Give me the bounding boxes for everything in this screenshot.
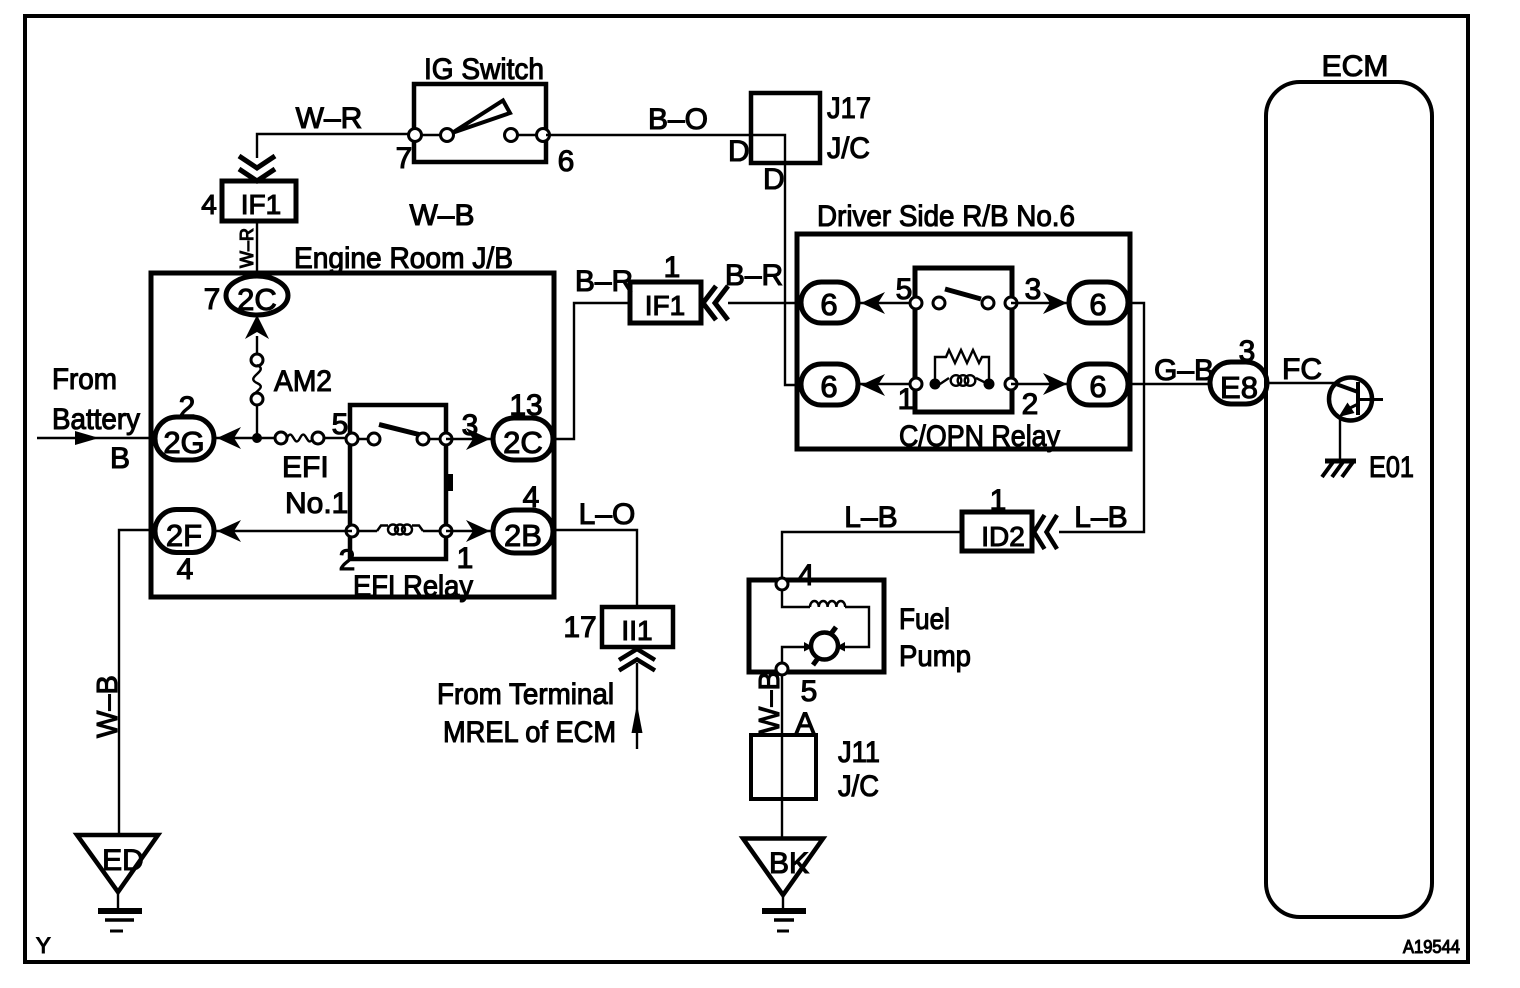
svg-text:From Terminal: From Terminal [437, 678, 614, 711]
wire chevron to R/B box [728, 302, 801, 304]
svg-text:2F: 2F [166, 518, 202, 553]
wire 2B to II1 (L-O) [553, 530, 637, 607]
connector IF1 box (pin 4) [222, 181, 296, 221]
svg-text:ED: ED [102, 844, 144, 877]
svg-text:EFI: EFI [282, 451, 329, 484]
svg-text:2C: 2C [503, 425, 543, 460]
svg-text:4: 4 [177, 553, 194, 586]
Driver Side R/B No.6 box [797, 234, 1130, 449]
svg-text:Y: Y [36, 933, 51, 958]
arrow into 2C (up) [245, 315, 269, 339]
ground BK triangle [743, 839, 823, 896]
svg-text:6: 6 [820, 287, 837, 322]
svg-text:Engine Room J/B: Engine Room J/B [294, 242, 513, 275]
svg-text:7: 7 [396, 142, 413, 175]
C/OPN Relay box [915, 268, 1012, 412]
svg-text:4: 4 [798, 559, 815, 592]
wire from arrow to fusible link AM2 [256, 336, 258, 355]
svg-text:5: 5 [801, 675, 818, 708]
svg-text:E8: E8 [1220, 370, 1258, 405]
ground ED triangle [77, 835, 158, 892]
EFI Relay top row links [352, 438, 374, 440]
fusible link AM2 [251, 354, 263, 366]
connector 2C (pin 7, top) [226, 276, 288, 315]
svg-text:J11: J11 [838, 736, 880, 769]
svg-text:G–B: G–B [1154, 354, 1214, 387]
svg-text:3: 3 [1025, 273, 1042, 306]
wire fuse to EFI relay pin 5 [324, 437, 352, 439]
svg-text:A19544: A19544 [1403, 937, 1460, 957]
svg-text:J/C: J/C [827, 132, 870, 165]
IG Switch lever [452, 101, 510, 134]
svg-text:BK: BK [769, 847, 809, 880]
wire B-O from IG Switch pin 6 to J17 [546, 134, 751, 136]
svg-text:E01: E01 [1369, 451, 1414, 484]
wire EFI relay pin 3 to 2C [446, 438, 493, 440]
wire to C/OPN pin 5 [858, 302, 916, 304]
svg-text:6: 6 [820, 369, 837, 404]
svg-text:4: 4 [201, 189, 217, 220]
arrow into 2B (right) [466, 520, 490, 542]
wire ID2 to fuel pump (L-B) [782, 532, 962, 584]
wire W-R from IF1 down to 2C [256, 221, 258, 276]
svg-text:IF1: IF1 [241, 189, 281, 220]
connector ID2 chevrons (pointing left) [1034, 515, 1045, 549]
junction block J11 J/C [751, 735, 816, 799]
svg-text:6: 6 [558, 145, 575, 178]
ground E01 [1325, 459, 1356, 464]
Fuel Pump box [749, 580, 884, 672]
connector 6 (top right) [1069, 282, 1128, 323]
svg-text:W–B: W–B [409, 199, 474, 232]
wire 6 top-right down to ID2 (L-B) [1059, 303, 1144, 532]
svg-text:MREL of ECM: MREL of ECM [443, 716, 616, 749]
C/OPN Relay coil [940, 378, 949, 384]
transistor inside ECM [1329, 378, 1372, 421]
arrow into 6 top-right [1043, 292, 1067, 314]
junction block J17 J/C [751, 93, 820, 163]
IG Switch terminal pin 7 [409, 129, 422, 142]
wire 2F to EFI relay pin 2 [214, 530, 352, 532]
svg-text:5: 5 [896, 273, 913, 306]
connector IF1 box (pin 1) [630, 282, 701, 323]
wire to C/OPN pin 1 [858, 383, 916, 385]
arrow into 6 top-left [861, 292, 885, 314]
connector IF1 chevrons (pointing left) [703, 286, 716, 320]
svg-text:1: 1 [990, 484, 1007, 517]
EFI Relay switch lever [379, 425, 419, 435]
svg-text:3: 3 [1239, 335, 1256, 368]
connector 2G (pin 2) [155, 417, 214, 460]
svg-text:6: 6 [1089, 287, 1106, 322]
fuel pump internal wiring and coil [782, 590, 810, 607]
svg-text:IF1: IF1 [645, 290, 685, 321]
svg-text:Fuel: Fuel [899, 603, 950, 636]
wire from MREL with up arrow [636, 663, 638, 749]
svg-text:C/OPN Relay: C/OPN Relay [899, 420, 1060, 453]
IG Switch box [414, 84, 546, 162]
ECM box [1266, 82, 1432, 917]
svg-text:W–R: W–R [237, 228, 257, 268]
svg-text:IG Switch: IG Switch [424, 53, 544, 86]
svg-text:B–O: B–O [648, 103, 708, 136]
svg-text:D: D [728, 135, 750, 168]
EFI Relay top terminals [346, 433, 358, 445]
IG Switch terminal pin 6 [537, 129, 550, 142]
svg-text:2: 2 [179, 391, 196, 424]
svg-text:6: 6 [1089, 369, 1106, 404]
wire E8 to transistor [1267, 382, 1337, 384]
connector 6 (top left) [801, 282, 858, 323]
svg-text:AM2: AM2 [274, 365, 332, 398]
connector ID2 box (pin 1) [962, 512, 1032, 551]
connector II1 (pin 17) [602, 607, 673, 647]
wire transistor emitter to ground E01 [1339, 417, 1341, 459]
svg-text:ID2: ID2 [981, 521, 1025, 552]
wire 2F to ED ground (W-B) [119, 530, 155, 835]
svg-text:2C: 2C [237, 282, 277, 317]
svg-text:2G: 2G [163, 425, 204, 460]
connector 2C (pin 13, right) [493, 418, 553, 460]
IG Switch terminal contact right [505, 129, 518, 142]
C/OPN Relay resistor [935, 350, 989, 380]
svg-text:L–B: L–B [844, 501, 897, 534]
svg-text:No.1: No.1 [285, 487, 348, 520]
arrow into 2F (left) [217, 520, 241, 542]
connector 2F (pin 4) [155, 510, 214, 553]
wire AM2 to junction [256, 405, 258, 438]
svg-text:Driver Side R/B No.6: Driver Side R/B No.6 [817, 200, 1075, 233]
C/OPN Relay switch lever [945, 289, 981, 299]
ground symbol under BK [782, 894, 784, 909]
connector 6 (bottom left) [801, 364, 858, 405]
connector 2B (pin 4) [493, 510, 553, 553]
wire C/OPN pin 2 to 6 [1011, 383, 1069, 385]
fuel pump motor [811, 633, 838, 660]
connector IF1 chevrons (female, pointing down) [239, 156, 275, 168]
svg-text:II1: II1 [621, 615, 652, 646]
wire from J17 terminal D down to C/OPN relay pin 1 [785, 163, 801, 385]
wire step inside J17 [751, 135, 785, 163]
svg-text:B–R: B–R [575, 265, 633, 298]
svg-text:W–R: W–R [296, 102, 363, 135]
wire 2G to fuse [214, 437, 276, 439]
connector 6 (bottom right) [1069, 364, 1128, 405]
IG Switch terminal contact left [441, 129, 454, 142]
arrow into 2G (left) [217, 427, 241, 449]
svg-text:13: 13 [509, 389, 542, 422]
svg-text:W–B: W–B [92, 675, 124, 738]
IG Switch internal contact links [415, 134, 447, 136]
arrow into 6 bottom-left [861, 374, 885, 396]
svg-text:2B: 2B [504, 518, 542, 553]
wire W-R from corner to IG Switch pin 7 [257, 134, 415, 158]
wire 6 bottom-right to E8 (G-B) [1128, 383, 1210, 385]
svg-text:1: 1 [664, 251, 681, 284]
wire from battery with arrow [37, 437, 157, 439]
svg-text:2: 2 [1022, 388, 1039, 421]
Engine Room J/B box [151, 273, 554, 597]
svg-text:J/C: J/C [838, 770, 879, 803]
svg-text:EFI Relay: EFI Relay [353, 570, 473, 603]
svg-text:B: B [110, 442, 130, 475]
svg-text:B–R: B–R [725, 259, 783, 292]
arrow into 6 bottom-right [1043, 373, 1067, 395]
svg-text:1: 1 [898, 383, 915, 416]
fuse EFI No.1 [275, 432, 287, 444]
svg-text:ECM: ECM [1322, 50, 1389, 83]
wire EFI relay pin 1 to 2B [446, 530, 493, 532]
fuel pump terminal 5 [776, 663, 788, 675]
junction node [252, 433, 262, 443]
EFI Relay coil (pins 2-1) [352, 530, 377, 532]
wire fuel pump to J11 to BK [781, 675, 783, 838]
svg-text:From: From [52, 363, 117, 396]
svg-text:FC: FC [1282, 353, 1322, 386]
svg-text:L–O: L–O [579, 498, 636, 531]
fuel pump terminal 4 [776, 578, 788, 590]
svg-text:17: 17 [563, 611, 596, 644]
svg-text:Pump: Pump [899, 640, 971, 673]
svg-text:L–B: L–B [1074, 501, 1127, 534]
C/OPN Relay top terminals [910, 297, 922, 309]
wire 2C to IF1 connector (B-R) [553, 303, 630, 439]
svg-text:7: 7 [204, 283, 221, 316]
connector E8 (pin 3) [1210, 362, 1267, 404]
ground symbol under ED [117, 892, 119, 908]
svg-text:D: D [763, 163, 785, 196]
svg-text:Battery: Battery [52, 403, 140, 436]
arrow into 2C right (right) [466, 428, 490, 450]
tick mark on relay right edge [446, 474, 453, 491]
connector II1 chevrons (pointing up) [619, 649, 655, 660]
svg-text:J17: J17 [827, 92, 871, 125]
wire C/OPN pin 3 to 6 [1011, 302, 1069, 304]
EFI Relay box [350, 405, 446, 559]
